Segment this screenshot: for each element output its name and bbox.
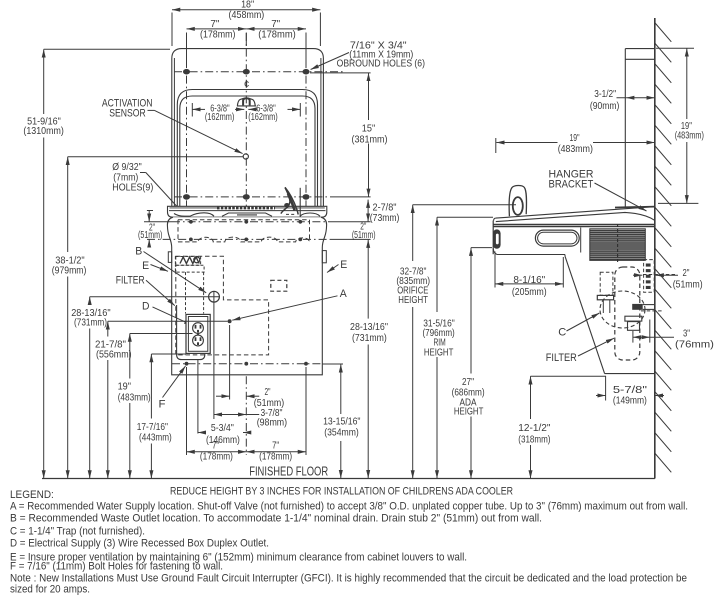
dim 27 ada height (452, 248, 492, 479)
dim 6-3/8 left (192, 103, 244, 123)
dim 19 vertical right (656, 48, 704, 203)
svg-text:13-15/16": 13-15/16" (323, 417, 361, 428)
svg-text:(178mm): (178mm) (258, 29, 296, 40)
dim 12-1/2 (518, 376, 606, 478)
dim 13-15/16 (322, 364, 361, 478)
dim 2in A to centerline (216, 387, 284, 409)
front panel outer (172, 49, 324, 207)
junction box dashed (271, 280, 287, 291)
trap pipe dashed (600, 272, 613, 295)
dim 3-1/2 back panel (590, 89, 655, 112)
svg-text:F = 7/16" (11mm) Bolt Holes fo: F = 7/16" (11mm) Bolt Holes for fastenin… (10, 561, 223, 573)
obround mounting holes top row (183, 69, 310, 75)
svg-text:(979mm): (979mm) (52, 266, 87, 277)
label A (232, 288, 347, 320)
svg-text:FILTER: FILTER (116, 275, 145, 287)
front bumper (493, 229, 501, 248)
svg-text:(162mm): (162mm) (248, 112, 278, 123)
dim 8-1/16 (495, 252, 563, 298)
waste outlet B circle (209, 291, 220, 419)
svg-text:(1310mm): (1310mm) (23, 126, 63, 137)
svg-text:(178mm): (178mm) (200, 29, 235, 40)
dim 2-7/8 right of basin (368, 200, 399, 224)
label F (159, 366, 186, 410)
dim 2in stub from wall (633, 268, 703, 291)
label D (142, 301, 192, 326)
svg-text:(162mm): (162mm) (205, 112, 235, 123)
obround holes leader (311, 53, 349, 70)
svg-text:(146mm): (146mm) (206, 435, 240, 446)
obround holes label (337, 40, 425, 69)
activation sensor leader (148, 110, 243, 153)
svg-text:(483mm): (483mm) (118, 392, 151, 403)
svg-text:(556mm): (556mm) (96, 350, 132, 361)
supply node A dot (228, 319, 232, 323)
svg-text:(76mm): (76mm) (675, 340, 714, 351)
dim 51-9/16 overall height (23, 49, 170, 478)
cabinet outline (167, 217, 326, 375)
svg-text:Note : New Installations Must: Note : New Installations Must Use Ground… (10, 573, 687, 585)
svg-text:E: E (340, 259, 347, 271)
svg-text:(318mm): (318mm) (518, 434, 550, 445)
svg-text:B: B (135, 246, 142, 258)
svg-text:(73mm): (73mm) (370, 213, 400, 224)
svg-text:(98mm): (98mm) (257, 417, 287, 428)
svg-text:7": 7" (271, 19, 280, 30)
wall hatching (655, 23, 671, 472)
svg-text:19": 19" (118, 382, 132, 393)
basin deck contours (174, 213, 320, 216)
dim 21-7/8 supply height (95, 321, 228, 478)
supply fitting (625, 316, 642, 330)
svg-text:7": 7" (210, 19, 219, 30)
hanger bracket label (549, 168, 594, 190)
centerline symbol (244, 80, 250, 91)
hole centerline top row (174, 71, 345, 73)
svg-text:(458mm): (458mm) (229, 10, 265, 21)
dim 2in left (bracket rows) (138, 211, 162, 248)
svg-text:sized for 20 amps.: sized for 20 amps. (10, 584, 90, 596)
filter cartridge dashed (615, 267, 640, 360)
hanger bracket leader (595, 183, 647, 211)
svg-text:2": 2" (265, 387, 271, 398)
svg-text:3-1/2": 3-1/2" (594, 89, 616, 100)
svg-text:(483mm): (483mm) (558, 144, 593, 155)
basin rim line (169, 208, 326, 211)
hole centerline vertical left (186, 60, 188, 242)
dim 18in top (172, 0, 320, 46)
svg-text:D = Electrical Supply (3) Wire: D = Electrical Supply (3) Wire Recessed … (10, 538, 269, 550)
finished floor line (42, 478, 655, 480)
hanger bracket edge (615, 206, 655, 209)
label C trap (558, 313, 599, 339)
hidden lines through wall (641, 275, 677, 311)
basin (168, 206, 327, 217)
dim 7in top-left (187, 19, 247, 66)
svg-text:(381mm): (381mm) (352, 134, 388, 145)
svg-text:18": 18" (241, 0, 254, 10)
label FILTER front (116, 275, 175, 306)
obround mounting holes bottom row (183, 194, 310, 200)
label FILTER side (546, 338, 614, 364)
drain stub dark (632, 304, 655, 310)
side panel seam (580, 228, 582, 253)
svg-text:15": 15" (362, 124, 376, 135)
svg-text:HEIGHT: HEIGHT (398, 295, 428, 306)
bubbler button front (237, 98, 256, 106)
activation sensor label (102, 97, 153, 119)
cooler front face (492, 221, 494, 255)
back panel (625, 49, 655, 208)
dim 15in right (310, 73, 388, 197)
svg-text:2": 2" (683, 268, 690, 279)
dim 32-7/8 orifice height (396, 205, 516, 479)
vertical centerline (245, 33, 247, 455)
dim 7in bottom-right (246, 441, 306, 463)
flexi-guard front (281, 187, 298, 214)
plumbing dashed boundary (176, 256, 269, 355)
svg-text:D: D (142, 301, 150, 313)
dim 38-1/2 sensor height (52, 157, 243, 479)
svg-text:12-1/2": 12-1/2" (518, 423, 551, 434)
cooler top cover side (494, 207, 655, 222)
dim 2in right (bracket) text (352, 221, 376, 241)
svg-text:Ø 9/32": Ø 9/32" (112, 162, 142, 173)
svg-text:(178mm): (178mm) (200, 452, 233, 463)
holes(9) label (112, 162, 153, 194)
svg-text:SENSOR: SENSOR (109, 107, 146, 119)
cooler body top line (493, 225, 655, 227)
svg-text:FINISHED FLOOR: FINISHED FLOOR (249, 464, 328, 479)
dim 3in supply from wall (633, 320, 714, 351)
svg-text:LEGEND:: LEGEND: (10, 489, 54, 501)
front panel inner recess (177, 90, 317, 207)
svg-text:HEIGHT: HEIGHT (454, 407, 484, 418)
cabinet bottom holes row (172, 362, 322, 366)
hanger bracket holes row1 (189, 220, 302, 224)
duplex outlet recessed box (177, 305, 205, 360)
holes(9) leader (140, 173, 190, 221)
svg-text:E: E (142, 260, 149, 272)
finished floor label (249, 464, 328, 479)
svg-text:HOLES(9): HOLES(9) (112, 183, 153, 194)
cabinet right notch (322, 251, 326, 263)
dim 17-7/16 box height (137, 354, 186, 479)
svg-text:C = 1-1/4" Trap (not furnished: C = 1-1/4" Trap (not furnished). (10, 526, 145, 538)
trap bend dashed (600, 291, 645, 328)
label E left (142, 260, 168, 272)
svg-text:(443mm): (443mm) (139, 432, 172, 443)
svg-text:(731mm): (731mm) (74, 317, 107, 328)
valve dashed drop lines (186, 272, 204, 313)
svg-text:REDUCE HEIGHT BY 3 INCHES FOR: REDUCE HEIGHT BY 3 INCHES FOR INSTALLATI… (170, 486, 513, 498)
hanger bracket centerline row1 (144, 221, 371, 223)
svg-text:(149mm): (149mm) (613, 395, 647, 406)
svg-text:19": 19" (570, 133, 580, 144)
cooler body bottom (493, 249, 655, 374)
svg-text:5-7/8": 5-7/8" (613, 385, 648, 396)
hanger bracket holes row2 (189, 238, 302, 242)
dim 7in top-right (246, 19, 306, 66)
svg-text:3": 3" (683, 329, 690, 340)
louver panel (590, 224, 646, 264)
svg-text:(178mm): (178mm) (259, 452, 292, 463)
svg-text:2-7/8": 2-7/8" (373, 203, 397, 214)
svg-text:7": 7" (212, 441, 219, 452)
basin back edge dark band (217, 207, 275, 210)
hole centerline bottom row (174, 196, 371, 198)
svg-text:BRACKET: BRACKET (549, 178, 594, 190)
svg-text:(731mm): (731mm) (352, 333, 387, 344)
guard side tube line (299, 188, 301, 217)
legend text block (10, 486, 688, 596)
svg-text:28-13/16": 28-13/16" (350, 322, 388, 333)
svg-text:(483mm): (483mm) (675, 131, 704, 142)
dim 19 outlet height (118, 334, 193, 479)
svg-text:OBROUND HOLES (6): OBROUND HOLES (6) (337, 59, 425, 70)
hole centerline vertical right (305, 60, 307, 242)
svg-text:(354mm): (354mm) (324, 428, 359, 439)
supply stub hatched box at wall (644, 260, 655, 293)
svg-text:(90mm): (90mm) (590, 101, 619, 112)
bubbler hood side (509, 186, 526, 217)
svg-text:(205mm): (205mm) (512, 287, 547, 298)
label E right (327, 259, 347, 273)
dim 7in bottom-left (187, 441, 247, 463)
svg-text:A: A (340, 288, 348, 300)
dim 28-13/16 waste height (71, 297, 219, 479)
svg-text:F: F (159, 398, 166, 410)
ext lines below cabinet (187, 325, 307, 455)
svg-text:7": 7" (272, 441, 279, 452)
svg-text:5-3/4": 5-3/4" (211, 423, 234, 434)
svg-text:C: C (558, 327, 566, 339)
svg-text:B = Recommended Waste Outlet l: B = Recommended Waste Outlet location. T… (10, 513, 542, 525)
svg-text:(51mm): (51mm) (138, 230, 162, 241)
dim 5-3/4 outlet center (198, 423, 246, 446)
dim 6-3/8 right (248, 103, 300, 123)
union flange (597, 295, 613, 299)
hanger bracket dashed outline (178, 220, 310, 242)
svg-text:17-7/16": 17-7/16" (137, 422, 169, 433)
dim 19 horizontal depth (496, 133, 655, 155)
dim 28-13/16 right (350, 240, 388, 479)
duplex outlet D (186, 314, 210, 353)
side oval slot (535, 230, 579, 246)
svg-text:FILTER: FILTER (546, 352, 577, 364)
svg-text:8-1/16": 8-1/16" (513, 275, 545, 286)
dim 5-7/8 (596, 376, 664, 406)
activation sensor dot (243, 154, 248, 159)
svg-text:(51mm): (51mm) (673, 280, 703, 291)
dim 3-7/8 outlet to centerline (214, 408, 287, 429)
cabinet left notch (168, 252, 171, 263)
label B (135, 246, 206, 293)
hanger bracket centerline row2 (147, 238, 371, 240)
dim 31-5/16 rim height (422, 217, 493, 478)
wall line (654, 18, 656, 479)
water valve assembly dashed (175, 257, 204, 273)
svg-text:A = Recommended Water Supply l: A = Recommended Water Supply location. S… (10, 501, 688, 513)
svg-text:HEIGHT: HEIGHT (424, 347, 454, 358)
